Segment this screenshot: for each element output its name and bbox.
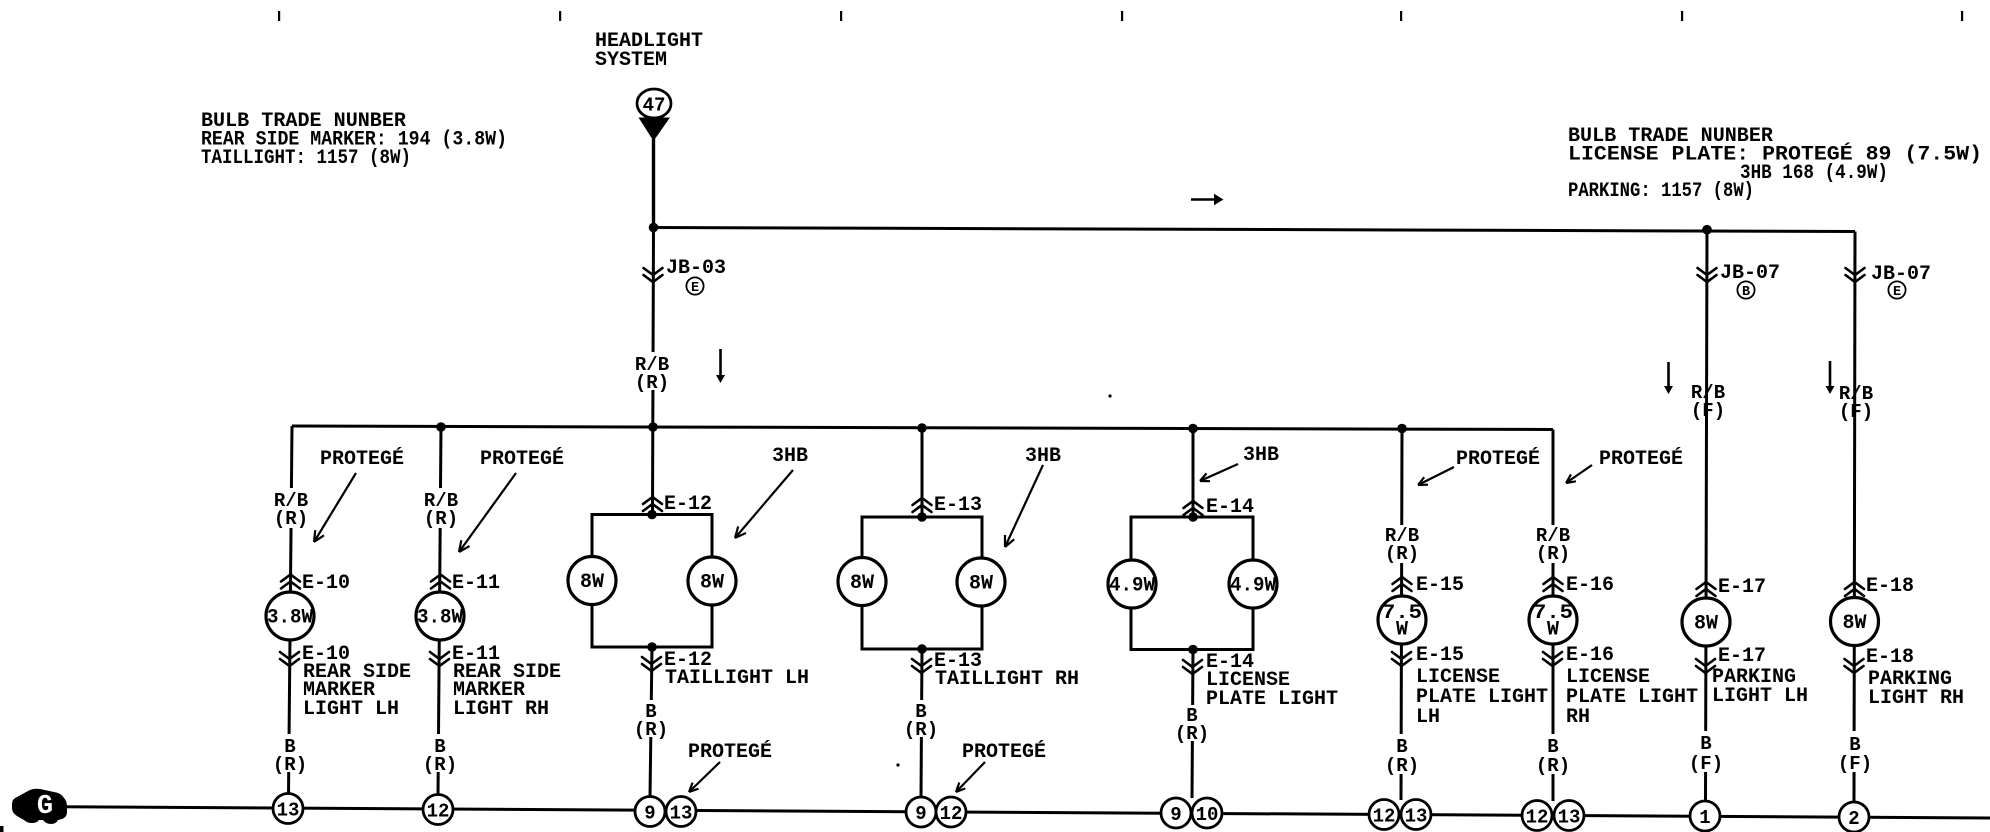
wire: E-12 loop to ground pin (650, 647, 652, 797)
wire label R/B (R) E-10 (272, 488, 310, 528)
svg-text:W: W (1547, 619, 1559, 642)
bulb taillight LH 8W (right) (688, 557, 736, 605)
svg-text:LH: LH (1416, 706, 1440, 729)
bulb license plate 4.9W (left) (1108, 560, 1156, 608)
svg-text:9: 9 (644, 802, 655, 824)
svg-text:(R): (R) (1536, 543, 1570, 565)
bulb E-10 rear side marker light LH 3.8W (266, 592, 314, 640)
wire label B (R) E-13 (906, 700, 937, 737)
svg-text:3HB 168 (4.9W): 3HB 168 (4.9W) (1740, 162, 1888, 185)
svg-text:12: 12 (427, 800, 450, 822)
svg-text:PROTEGÉ: PROTEGÉ (688, 740, 772, 764)
stray scan speck (1108, 394, 1111, 397)
svg-text:3HB: 3HB (1243, 444, 1279, 467)
ground connector pin 13 (273, 794, 303, 824)
connector E-12 (bottom) (642, 657, 661, 671)
wire label R/B (R) on main run (633, 352, 672, 390)
wire label B (F) E-17 (1691, 731, 1721, 772)
svg-text:8W: 8W (1842, 612, 1866, 635)
junction mid bus E-13 (917, 423, 927, 433)
svg-text:(R): (R) (274, 508, 308, 530)
svg-text:E-16: E-16 (1566, 574, 1614, 597)
connector JB-03 (644, 268, 663, 282)
connector E-10 (bottom) (280, 652, 299, 666)
svg-text:E: E (691, 281, 699, 296)
junction at JB-07 B branch (1702, 225, 1712, 235)
svg-text:(R): (R) (424, 508, 458, 530)
bulb license plate light LH 7.5W (1378, 596, 1426, 644)
svg-text:8W: 8W (969, 573, 993, 596)
svg-text:TAILLIGHT RH: TAILLIGHT RH (935, 668, 1079, 691)
connector E-17 (top) (1697, 582, 1716, 596)
junction mid bus E-11 (436, 422, 446, 432)
svg-text:(R): (R) (273, 754, 307, 776)
svg-text:47: 47 (643, 95, 666, 117)
wire: mid bus to license plate light LH (1401, 429, 1402, 801)
svg-text:9: 9 (915, 803, 926, 825)
junction at E-13 loop bottom (917, 644, 927, 654)
ground connector pins 9 10 (1161, 798, 1191, 828)
flow arrow down near JB-03 (719, 349, 722, 376)
wire: top bus to parking light LH (1706, 230, 1708, 801)
junction mid bus E-15 (1397, 424, 1407, 434)
wire label B (R) E-14 (1177, 705, 1208, 741)
svg-text:RH: RH (1566, 706, 1590, 729)
svg-text:PARKING: 1157 (8W): PARKING: 1157 (8W) (1568, 180, 1754, 203)
svg-text:E-17: E-17 (1718, 576, 1766, 599)
wire label R/B (R) E-16 (1534, 525, 1572, 563)
wire: mid bus to license plate light RH (1552, 430, 1555, 802)
wire label B (R) E-12 (636, 700, 667, 737)
wire label B (R) E-10 (274, 734, 305, 772)
svg-text:E-13: E-13 (934, 494, 982, 517)
svg-text:(R): (R) (904, 719, 938, 741)
wire label R/B (F) right (1837, 382, 1875, 420)
junction at E-12 loop top (647, 510, 657, 520)
svg-text:(R): (R) (1385, 755, 1419, 777)
svg-text:PROTEGÉ: PROTEGÉ (962, 740, 1046, 764)
svg-text:JB-03: JB-03 (666, 257, 726, 280)
junction at E-14 loop bottom (1188, 645, 1198, 655)
svg-text:E-15: E-15 (1416, 644, 1464, 667)
junction at feed / top bus (649, 223, 659, 233)
ground connector pin 12 (423, 795, 453, 825)
bulb license plate light RH 7.5W (1529, 596, 1577, 644)
svg-text:E-18: E-18 (1866, 646, 1914, 669)
svg-text:E-17: E-17 (1718, 645, 1766, 668)
svg-text:9: 9 (1170, 804, 1181, 826)
svg-text:PLATE LIGHT: PLATE LIGHT (1206, 688, 1338, 711)
wire label R/B (R) E-11 (422, 488, 460, 528)
flow arrow down near JB-07 E (1829, 361, 1832, 387)
svg-text:G: G (37, 792, 53, 822)
svg-text:E-12: E-12 (664, 493, 712, 516)
ground connector pin 2 (1839, 802, 1869, 832)
junction at mid bus / main run (648, 422, 658, 432)
wire: taillight LH parallel loop (592, 515, 712, 648)
wire: taillight RH parallel loop (862, 517, 982, 649)
svg-text:3HB: 3HB (772, 445, 808, 468)
connector E-13 (bottom) (912, 659, 931, 673)
svg-text:B: B (1742, 285, 1750, 300)
connector E-12 (top) (643, 497, 662, 511)
svg-text:12: 12 (1526, 806, 1549, 828)
flow arrow down near JB-07 B (1667, 362, 1670, 387)
bulb taillight RH 8W (right) (957, 558, 1005, 606)
wire label R/B (F) left (1689, 381, 1727, 419)
junction at E-13 loop top (917, 512, 927, 522)
svg-text:(R): (R) (634, 719, 668, 741)
svg-text:13: 13 (1405, 805, 1428, 827)
svg-text:(F): (F) (1689, 753, 1723, 775)
svg-text:W: W (1396, 619, 1408, 642)
svg-text:12: 12 (1373, 805, 1396, 827)
svg-text:(R): (R) (423, 754, 457, 776)
svg-text:E: E (1893, 285, 1901, 300)
svg-text:LIGHT RH: LIGHT RH (1868, 687, 1964, 710)
svg-text:4.9W: 4.9W (1230, 575, 1276, 598)
svg-text:TAILLIGHT LH: TAILLIGHT LH (665, 667, 809, 690)
svg-text:LIGHT LH: LIGHT LH (303, 698, 399, 721)
wire: top bus (654, 228, 1856, 232)
junction mid bus E-14 (1188, 424, 1198, 434)
ground connector pins 12 13 (1369, 800, 1399, 830)
ground connector pins 9 12 (906, 797, 936, 827)
wire: license plate light parallel loop (1131, 517, 1253, 650)
connector E-15 (bottom) (1392, 652, 1411, 666)
svg-text:1: 1 (1699, 807, 1710, 829)
svg-text:13: 13 (277, 799, 300, 821)
connector E-14 (top) (1184, 501, 1203, 515)
svg-text:PROTEGÉ: PROTEGÉ (320, 447, 404, 471)
bulb E-11 rear side marker light RH 3.8W (416, 592, 464, 640)
arrow from headlight system (filled triangle) (639, 118, 671, 142)
connector E-11 (top) (431, 575, 450, 589)
connector E-16 (bottom) (1543, 652, 1562, 666)
svg-text:13: 13 (670, 802, 693, 824)
svg-text:E-15: E-15 (1416, 574, 1464, 597)
svg-text:E-18: E-18 (1866, 575, 1914, 598)
svg-text:3HB: 3HB (1025, 445, 1061, 468)
junction at E-12 loop bottom (647, 642, 657, 652)
svg-text:B: B (1700, 733, 1711, 755)
svg-text:E-10: E-10 (302, 572, 350, 595)
svg-text:E-16: E-16 (1566, 644, 1614, 667)
svg-text:(R): (R) (635, 372, 669, 394)
svg-text:PROTEGÉ: PROTEGÉ (1456, 447, 1540, 471)
wire label B (R) E-16 (1537, 734, 1568, 774)
bulb parking light LH 8W (1682, 598, 1730, 646)
ground connector pins 12 13 (1522, 801, 1552, 831)
svg-text:E-11: E-11 (452, 572, 500, 595)
arrow pointing right (current direction) (1191, 198, 1215, 200)
svg-text:LIGHT RH: LIGHT RH (453, 698, 549, 721)
svg-text:3.8W: 3.8W (267, 607, 313, 630)
wire: main run JB-03 to taillight LH loop (653, 228, 654, 515)
svg-text:SYSTEM: SYSTEM (595, 49, 667, 72)
circuit reference circle 47 (637, 89, 671, 118)
svg-text:(R): (R) (1385, 543, 1419, 565)
svg-text:LIGHT LH: LIGHT LH (1712, 685, 1808, 708)
connector JB-07 B (1698, 268, 1717, 282)
wire: mid bus to rear side marker LH (289, 426, 293, 795)
wire: top bus to parking light RH (1854, 232, 1855, 803)
svg-text:3.8W: 3.8W (417, 607, 463, 630)
bulb taillight LH 8W (left) (568, 557, 616, 605)
wire: mid bus to license plate loop (1192, 429, 1195, 518)
wire: mid bus to taillight RH loop (921, 428, 924, 517)
svg-text:8W: 8W (1694, 613, 1718, 636)
svg-text:PROTEGÉ: PROTEGÉ (480, 447, 564, 471)
svg-text:2: 2 (1848, 808, 1859, 830)
wire: mid bus to rear side marker RH (438, 427, 441, 796)
svg-text:13: 13 (1558, 806, 1581, 828)
connector E-15 (top) (1393, 577, 1412, 591)
bulb parking light RH 8W (1831, 598, 1879, 646)
ground connector pins 9 13 (635, 797, 665, 827)
wire label B (R) E-15 (1386, 734, 1417, 774)
svg-text:4.9W: 4.9W (1109, 575, 1155, 598)
connector E-13 (top) (913, 498, 932, 512)
svg-text:12: 12 (940, 803, 963, 825)
svg-text:8W: 8W (580, 571, 604, 594)
wire: E-13 loop to ground pin (921, 649, 922, 797)
svg-text:PROTEGÉ: PROTEGÉ (1599, 447, 1683, 471)
svg-text:TAILLIGHT: 1157 (8W): TAILLIGHT: 1157 (8W) (201, 147, 411, 170)
svg-text:8W: 8W (700, 572, 724, 595)
wire label B (F) E-18 (1840, 731, 1870, 772)
connector E-18 (bottom) (1845, 659, 1864, 673)
svg-text:(R): (R) (1175, 723, 1209, 745)
connector E-10 (top) (281, 575, 300, 589)
svg-text:10: 10 (1196, 804, 1219, 826)
junction at E-14 loop top (1188, 512, 1198, 522)
ground connector pin 1 (1690, 801, 1720, 831)
wire: mid distribution bus (292, 426, 1553, 430)
connector E-18 (top) (1845, 582, 1864, 596)
connector E-14 (bottom) (1183, 660, 1202, 674)
wire: ground bus (14, 807, 1990, 819)
ground G (body ground symbol) (12, 789, 67, 824)
connector JB-07 E (1846, 268, 1865, 282)
wire label R/B (R) E-15 (1383, 525, 1421, 563)
bulb taillight RH 8W (left) (838, 558, 886, 606)
svg-text:(F): (F) (1838, 753, 1872, 775)
connector E-11 (bottom) (430, 652, 449, 666)
wire label B (R) E-11 (424, 734, 455, 772)
connector E-16 (top) (1544, 577, 1563, 591)
svg-text:(R): (R) (1536, 755, 1570, 777)
wire: E-14 loop to ground pin (1192, 650, 1193, 799)
bulb license plate 4.9W (right) (1229, 560, 1277, 608)
svg-text:8W: 8W (850, 572, 874, 595)
wire: feed from headlight system down to top bus (652, 139, 655, 228)
connector E-17 (bottom) (1696, 659, 1715, 673)
